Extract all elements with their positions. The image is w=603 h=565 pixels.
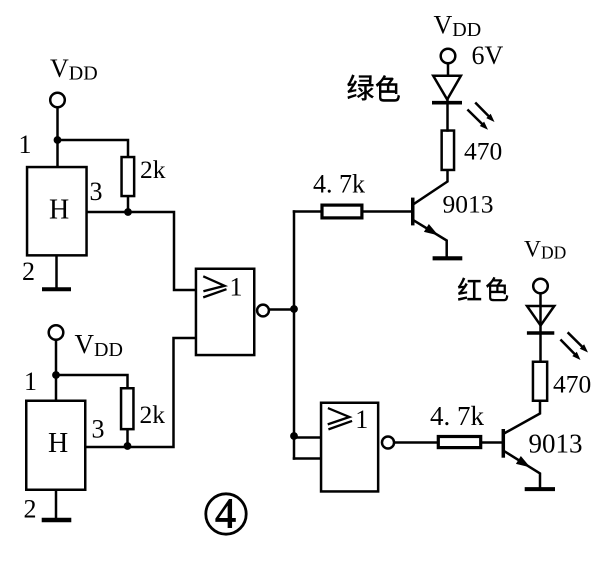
gate symbol >=1 (G2)	[329, 409, 351, 430]
transistor Q2 base bar	[502, 431, 506, 456]
label 4.7k (bottom)	[430, 401, 485, 431]
inversion bubble G2	[382, 436, 394, 448]
wire G1 output to bus node	[270, 308, 294, 311]
bus wire vertical	[293, 212, 296, 459]
pin label 3 (U1)	[90, 177, 103, 206]
LED D1 cathode bar	[434, 101, 460, 105]
svg-text:1: 1	[19, 130, 32, 159]
power terminal VDD (bottom-right)	[533, 279, 548, 294]
label 470 (top)	[464, 137, 502, 166]
svg-text:4. 7k: 4. 7k	[430, 401, 485, 431]
label VDD (bottom-left)	[75, 329, 123, 361]
label H (U2)	[48, 428, 68, 459]
LED D2 emission arrows	[561, 333, 588, 360]
wire resistor 2k bottom to node 3 (bottom)	[126, 430, 129, 448]
wire resistor 4.7k to Q2 base	[482, 441, 502, 444]
svg-text:1: 1	[355, 405, 368, 434]
wire VDD terminal to LED D1 anode	[447, 64, 450, 75]
resistor 470 (bottom)	[533, 362, 547, 401]
resistor 2k (top)	[122, 157, 135, 196]
wire U2 pin 2 to ground	[55, 490, 58, 518]
LED D1 emission arrows	[468, 103, 494, 129]
label 9013 (Q1)	[443, 190, 494, 219]
label 470 (bottom)	[553, 370, 591, 399]
label VDD (bottom-right)	[524, 237, 566, 263]
resistor 2k (bottom)	[121, 388, 133, 429]
pin label 1 (U2)	[24, 367, 37, 396]
ground (U1)	[44, 287, 69, 291]
gate G2 label 1	[355, 405, 368, 434]
svg-text:H: H	[48, 428, 68, 459]
gate G1 label 1	[230, 273, 243, 302]
wire VDD terminal to H2 pin 1	[55, 341, 58, 401]
power terminal VDD (top-right)	[441, 49, 456, 64]
transistor Q2 emitter with arrow	[504, 451, 540, 488]
wire U1 pin 2 to ground	[55, 257, 58, 287]
svg-text:470: 470	[464, 137, 502, 166]
junction node VDD1	[54, 136, 62, 144]
wire bus to G2 input B	[294, 457, 320, 460]
label red (hong se)	[458, 277, 509, 301]
NOR gate G2 box	[321, 403, 378, 492]
label 2k (bottom)	[140, 400, 166, 429]
wire U2 pin 3 to gate G1 input B	[87, 338, 196, 447]
wire VDD terminal to H1 pin 1	[56, 108, 59, 166]
label VDD (top-left)	[50, 54, 98, 85]
ground (Q1 emitter)	[435, 256, 461, 260]
wire bus top to resistor 4.7k (top)	[294, 210, 321, 213]
svg-text:2: 2	[22, 257, 35, 286]
svg-text:4. 7k: 4. 7k	[313, 170, 365, 199]
pin label 2 (U1)	[22, 257, 35, 286]
power terminal VDD (bottom-left)	[49, 325, 64, 340]
label 6V	[472, 41, 504, 70]
junction node VDD2	[52, 371, 60, 379]
gate symbol >=1 (G1)	[204, 277, 225, 297]
svg-text:4: 4	[215, 492, 236, 538]
figure number 4	[215, 492, 236, 538]
ground (U2)	[44, 518, 69, 523]
resistor 470 (top)	[442, 131, 454, 170]
svg-text:6V: 6V	[472, 41, 504, 70]
junction bus / G2 inputs	[290, 432, 298, 440]
pin label 1 (U1)	[19, 130, 32, 159]
junction resistor 2k / pin 3 (top)	[124, 208, 132, 216]
svg-text:2k: 2k	[140, 400, 166, 429]
power terminal VDD (top-left)	[50, 93, 65, 108]
svg-text:3: 3	[92, 415, 105, 444]
svg-text:3: 3	[90, 177, 103, 206]
wire G2 output to resistor 4.7k (bottom)	[395, 441, 438, 444]
svg-text:1: 1	[24, 367, 37, 396]
figure number circle	[206, 494, 246, 534]
wire node to resistor 2k (bottom)	[56, 375, 128, 388]
transistor Q1 collector	[413, 172, 448, 205]
LED D2 triangle	[527, 306, 554, 326]
label 2k (top)	[140, 155, 166, 184]
H module U2 box	[26, 401, 85, 490]
svg-text:2: 2	[24, 495, 37, 524]
NOR gate G1 box	[196, 269, 254, 355]
label 9013 (Q2)	[529, 429, 583, 459]
transistor Q1 emitter with arrow	[413, 220, 447, 257]
wire resistor 4.7k to Q1 base	[364, 210, 411, 213]
wire U1 pin 3 to gate G1 input A	[88, 212, 195, 290]
transistor Q2 collector	[504, 403, 540, 434]
wire node to resistor 2k (top)	[58, 140, 129, 157]
LED D2 cathode bar	[529, 331, 553, 334]
H module U1 box	[27, 167, 87, 255]
resistor 4.7k (top)	[322, 205, 362, 218]
wire resistor 2k bottom to node 3	[127, 197, 130, 213]
label 4.7k (top)	[313, 170, 365, 199]
svg-text:9013: 9013	[443, 190, 494, 219]
wire VDD terminal through LED D2 to resistor 470	[539, 294, 542, 361]
LED D1 triangle	[433, 76, 461, 100]
wire LED D1 to resistor 470	[446, 99, 449, 131]
label green (lu se)	[347, 74, 400, 101]
junction resistor 2k / pin 3 (bottom)	[124, 442, 132, 450]
wire bus to G2 input A	[294, 436, 320, 439]
svg-text:9013: 9013	[529, 429, 583, 459]
svg-text:470: 470	[553, 370, 591, 399]
transistor Q1 base bar	[411, 199, 415, 223]
label H (U1)	[49, 195, 69, 226]
pin label 3 (U2)	[92, 415, 105, 444]
svg-text:H: H	[49, 195, 69, 226]
inversion bubble G1	[257, 305, 269, 317]
resistor 4.7k (bottom)	[438, 437, 480, 448]
svg-text:1: 1	[230, 273, 243, 302]
pin label 2 (U2)	[24, 495, 37, 524]
junction G1 output / bus	[290, 305, 298, 313]
svg-text:2k: 2k	[140, 155, 166, 184]
ground (Q2 emitter)	[527, 487, 553, 491]
label VDD (top-right)	[434, 11, 482, 42]
